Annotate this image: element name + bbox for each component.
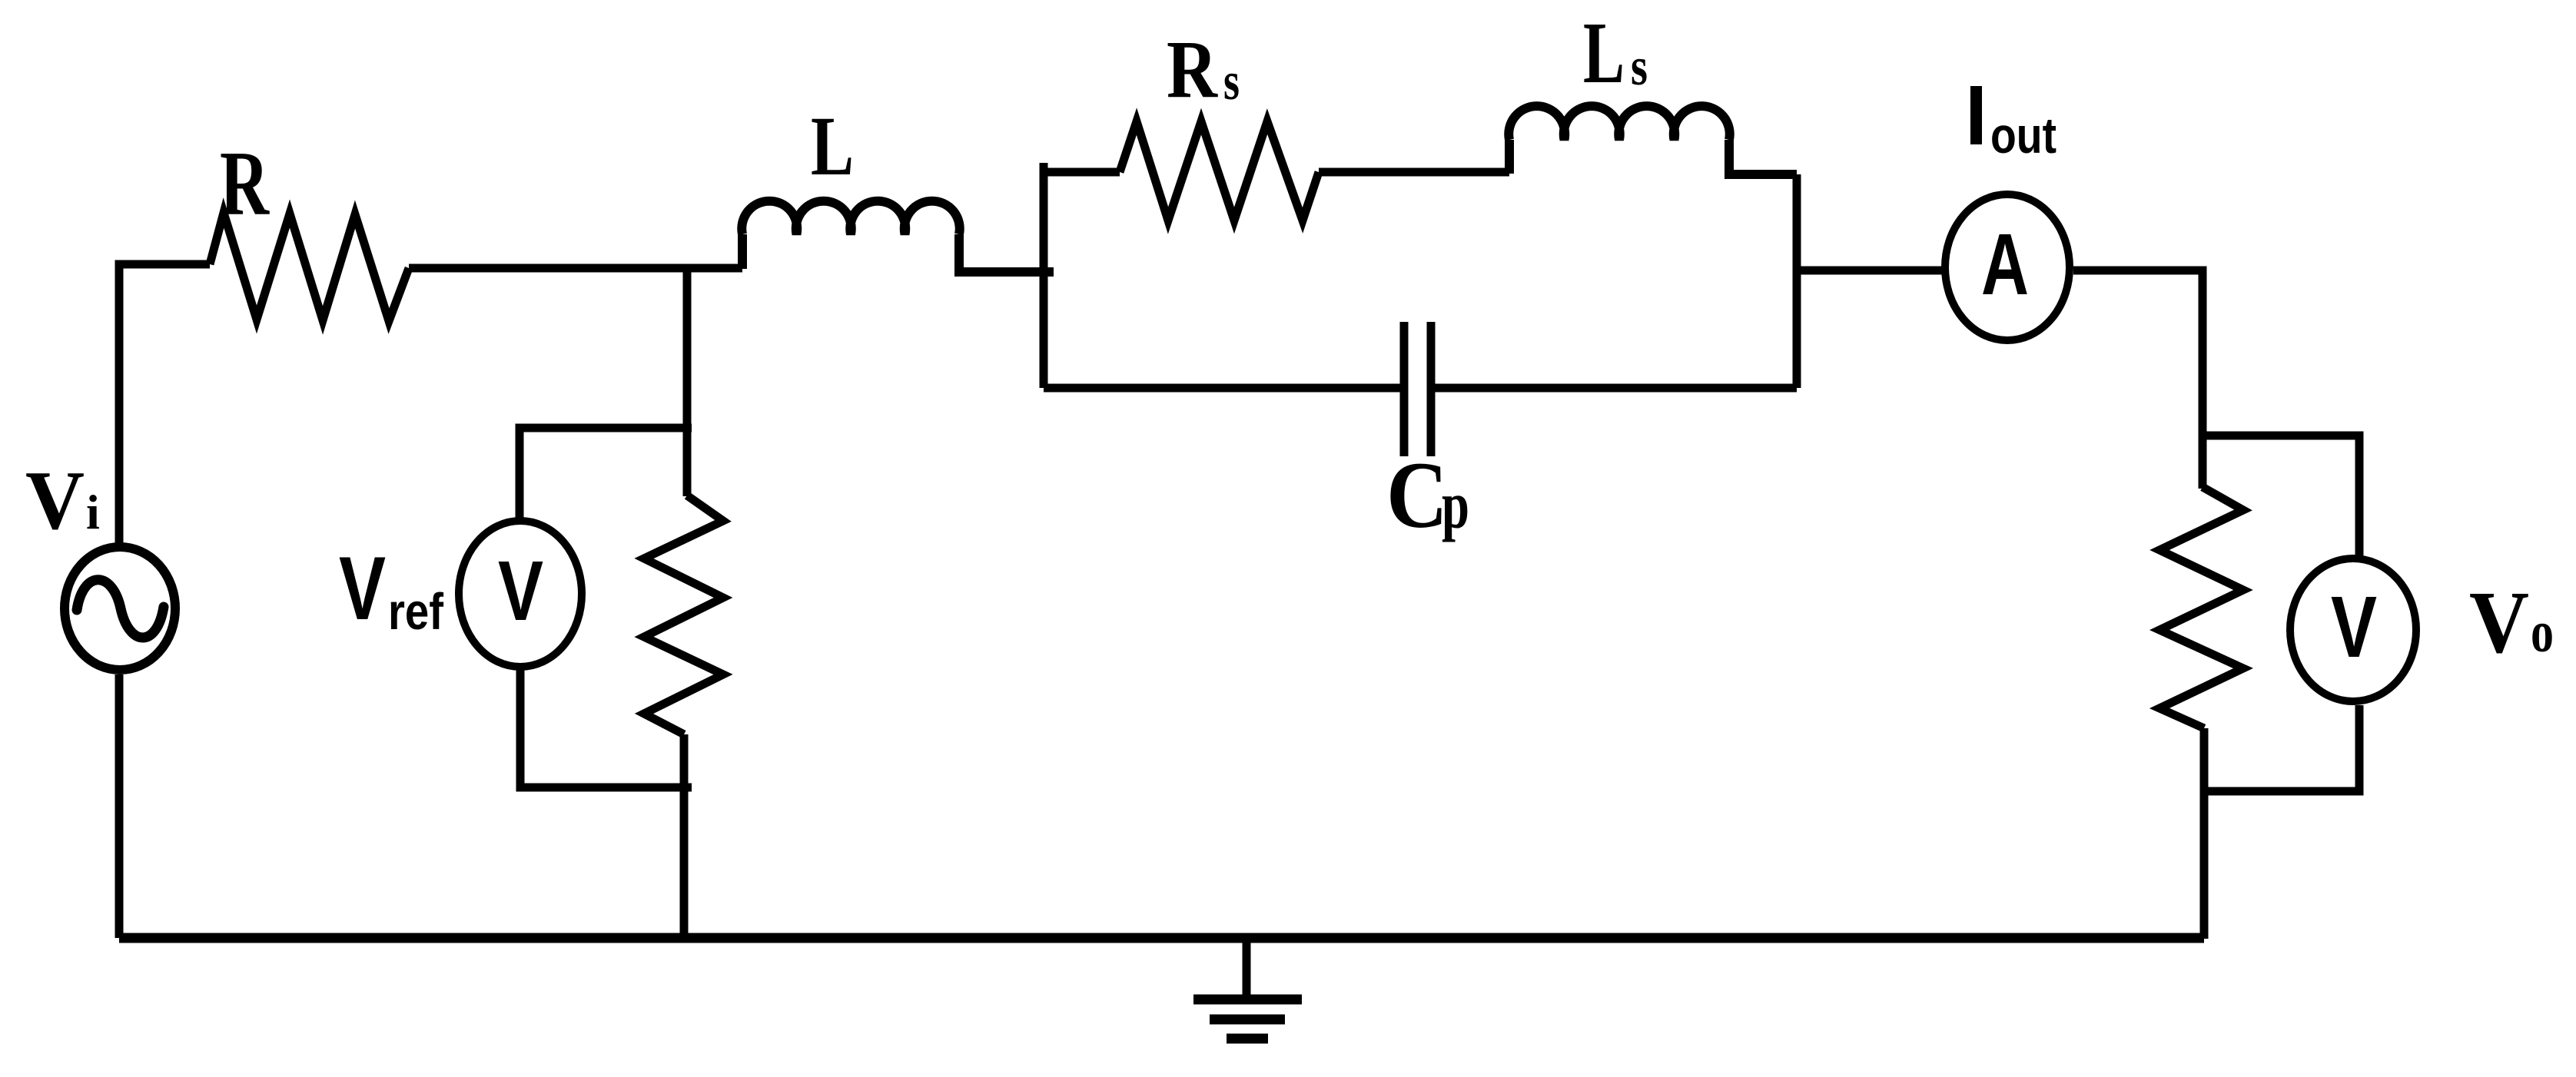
reference resistor (left) bbox=[644, 495, 723, 734]
bottom rail (ground net) bbox=[119, 933, 2204, 943]
ammeter A bbox=[1945, 194, 2070, 340]
svg-text:s: s bbox=[1223, 52, 1240, 111]
wire between Rs and Ls bbox=[1319, 168, 1509, 177]
svg-text:A: A bbox=[1981, 216, 2029, 313]
svg-text:out: out bbox=[1990, 107, 2056, 164]
svg-text:R: R bbox=[1167, 25, 1218, 115]
wire from Vi bottom to bottom rail bbox=[115, 674, 124, 938]
wire: parallel block left edge bbox=[1040, 163, 1048, 388]
svg-text:V: V bbox=[2469, 574, 2529, 672]
svg-text:L: L bbox=[1583, 4, 1625, 101]
svg-text:i: i bbox=[86, 485, 100, 539]
wire from R to node and L bbox=[409, 264, 742, 273]
wire: top branch lead-in bbox=[1044, 168, 1120, 177]
label Iout bbox=[1970, 86, 1982, 144]
svg-text:V: V bbox=[339, 538, 386, 638]
wire from reference resistor to bottom rail bbox=[680, 734, 689, 939]
svg-text:C: C bbox=[1386, 442, 1448, 548]
ground bbox=[1193, 938, 1302, 1039]
sine symbol bbox=[77, 580, 164, 638]
capacitor Cp right plate bbox=[1427, 322, 1436, 456]
wire from load resistor to bottom rail bbox=[2200, 728, 2209, 939]
svg-text:L: L bbox=[811, 99, 854, 193]
svg-text:V: V bbox=[2331, 578, 2377, 675]
wire from block to ammeter bbox=[1797, 267, 1942, 275]
wire from ammeter down to Vo node bbox=[2073, 270, 2203, 436]
load resistor (right) bbox=[2199, 436, 2207, 489]
svg-text:o: o bbox=[2531, 600, 2554, 664]
svg-text:V: V bbox=[498, 544, 543, 638]
svg-text:p: p bbox=[1442, 469, 1469, 543]
svg-text:s: s bbox=[1631, 38, 1648, 97]
wire from Vref meter bottom bbox=[520, 669, 692, 787]
wire from node to Vref meter top bbox=[520, 428, 692, 520]
svg-text:R: R bbox=[220, 132, 270, 234]
inductor L bbox=[742, 201, 1054, 272]
wire: parallel block right edge bbox=[1793, 174, 1801, 388]
inductor Ls bbox=[1509, 106, 1797, 174]
svg-text:ref: ref bbox=[388, 583, 444, 641]
voltmeter Vref bbox=[459, 521, 582, 667]
capacitor Cp left plate bbox=[1400, 322, 1409, 456]
wire from Vi top to top rail bbox=[119, 264, 210, 545]
svg-text:V: V bbox=[25, 454, 85, 547]
wire from Vo meter bottom bbox=[2204, 705, 2359, 791]
wire to Vo meter top bbox=[2203, 436, 2359, 555]
resistor Rs bbox=[1120, 121, 1319, 220]
resistor R bbox=[210, 213, 409, 321]
node: junction to Vref branch bbox=[683, 268, 692, 496]
ac source Vi bbox=[65, 547, 175, 670]
wire: bottom branch left of Cp bbox=[1044, 384, 1404, 393]
wire: bottom branch right of Cp bbox=[1431, 384, 1797, 393]
voltmeter Vo bbox=[2290, 558, 2416, 701]
